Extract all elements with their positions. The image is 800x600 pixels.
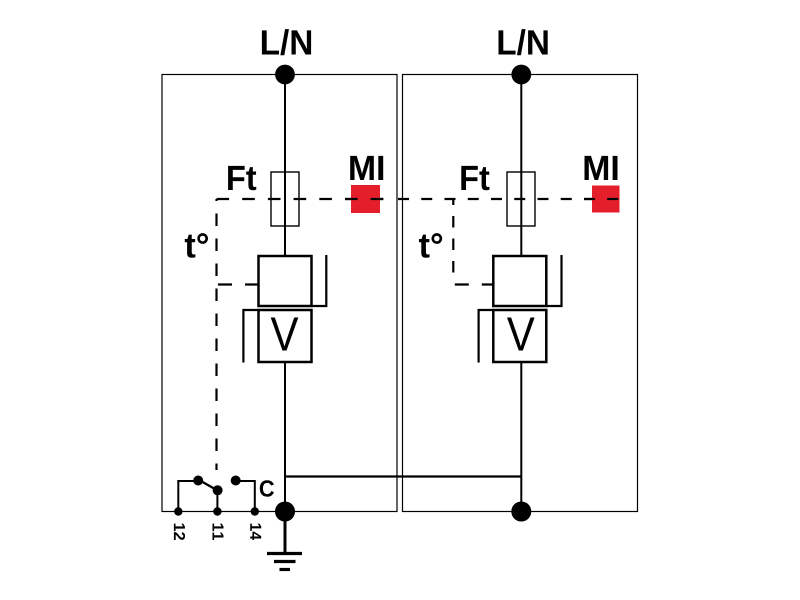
dashed thermal line vertical (module 1) [215,199,217,470]
remote contact riser 12 (module 1) [178,481,196,512]
fuse / thermal disconnector Ft (module 1) [271,172,299,226]
label 12 (rotated) [174,524,185,540]
wire: varistor to bottom node (module 2) [520,362,522,512]
label 14 (rotated) [250,524,261,540]
monitoring indicator MI (module 2, red) [592,186,620,213]
wire: L/N terminal to fuse Ft (module 2) [520,75,522,173]
label t° (module 2) [419,233,442,258]
ground bar 1 [267,552,302,555]
dashed signal line to monitoring (both modules) [217,198,385,200]
varistor upper box (disconnector, module 2) [493,256,546,306]
wire: through fuse to varistor (module 2) [520,172,522,256]
blade end dot (module 1) [213,485,223,495]
dashed thermal branch to varistor (module 1) [217,283,259,285]
ground stem [284,520,287,554]
label MI (module 2) [584,156,617,180]
terminal dot 12 [174,507,182,515]
dashes over MI square (module 1) [345,198,358,200]
NO contact dot (module 1) [231,476,241,486]
disconnect bracket left (module 2) [479,310,494,363]
label C (remote contact common) [260,480,274,497]
terminal dot 14 [251,507,259,515]
label t° (module 1) [185,233,208,258]
disconnect bracket left (module 1) [243,310,258,363]
bottom junction node (module 1) [275,502,295,522]
wire: bottom interconnection module 1 to module 2 [285,475,521,477]
label 11 (rotated) [213,524,224,540]
label L/N (module 1) [262,29,311,55]
varistor letter V (module 1) [271,317,299,350]
contact pivot dot (module 1) [193,476,203,486]
wire: varistor to bottom node (module 1) [284,362,286,512]
terminal dot 11 [213,507,221,515]
dashed thermal line vertical (module 2) [452,199,454,277]
disconnect bracket right (module 2) [546,255,561,306]
terminal node L/N (module 2) [511,65,531,85]
dashed thermal branch to varistor (module 2) [453,283,493,285]
module 1 enclosure [162,75,397,512]
wire: through fuse to varistor (module 1) [284,172,286,256]
dashes over MI square (module 2) [584,198,595,200]
switch blade (module 1) [196,478,219,491]
wire: L/N terminal to fuse Ft (module 1) [284,75,286,173]
varistor letter V (module 2) [507,317,535,350]
label L/N (module 2) [498,29,547,55]
monitoring indicator MI (module 1, red) [351,185,380,213]
remote contact riser 14 (module 1) [236,481,255,512]
label Ft (module 1) [228,166,256,190]
label Ft (module 2) [461,166,489,190]
terminal node L/N (module 1) [275,65,295,85]
bottom junction node (module 2) [511,502,531,522]
label MI (module 1) [350,156,383,180]
ground bar 3 [280,568,291,571]
module 2 enclosure [403,75,638,512]
wire: blade to terminal 11 (module 1) [216,490,218,512]
varistor lower box V (module 1) [259,310,312,362]
varistor upper box (disconnector, module 1) [259,256,312,306]
disconnect bracket right (module 1) [312,255,327,306]
fuse / thermal disconnector Ft (module 2) [507,172,535,226]
ground bar 2 [274,560,296,563]
varistor lower box V (module 2) [493,310,546,362]
